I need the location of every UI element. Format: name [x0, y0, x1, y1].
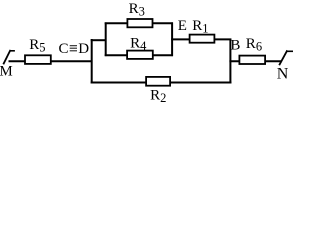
- resistor R3 (box): [127, 19, 152, 27]
- wire stub to parallel block: [91, 39, 107, 41]
- terminal M lead tail: [10, 50, 15, 52]
- wire R4 rung: [105, 54, 173, 56]
- resistor R2 (box): [146, 77, 170, 86]
- svg-text:C: C: [59, 41, 69, 57]
- svg-text:D: D: [78, 41, 89, 57]
- svg-text:R1: R1: [192, 18, 208, 35]
- svg-text:B: B: [230, 37, 240, 53]
- wire left junction vertical (C/D node): [91, 39, 93, 84]
- svg-text:R2: R2: [150, 88, 166, 105]
- svg-text:R6: R6: [246, 36, 262, 53]
- resistor R4 (box): [127, 51, 153, 59]
- wire right junction vertical (node B): [229, 39, 231, 84]
- wire right bus of R3/R4 parallel block: [171, 22, 173, 56]
- svg-text:E: E: [178, 18, 187, 34]
- resistor R6 (box): [239, 56, 265, 64]
- svg-text:R3: R3: [129, 1, 145, 18]
- wire E to B (mid horizontal): [171, 38, 231, 40]
- wire B to N (main right horizontal): [229, 60, 281, 62]
- wire bottom branch: [91, 82, 232, 84]
- terminal M oblique stroke: [3, 50, 10, 64]
- resistor R1 (box): [190, 35, 215, 43]
- svg-text:N: N: [277, 66, 289, 83]
- terminal N lead tail: [287, 50, 293, 52]
- wire M to node C/D (main left horizontal): [9, 60, 93, 62]
- svg-text:R4: R4: [130, 35, 147, 52]
- terminal N oblique stroke: [279, 50, 287, 65]
- svg-text:M: M: [0, 64, 13, 80]
- svg-text:R5: R5: [29, 37, 45, 54]
- resistor R5 (box): [25, 55, 51, 64]
- wire R3 rung: [105, 22, 173, 24]
- wire left bus of R3/R4 parallel block: [105, 22, 107, 56]
